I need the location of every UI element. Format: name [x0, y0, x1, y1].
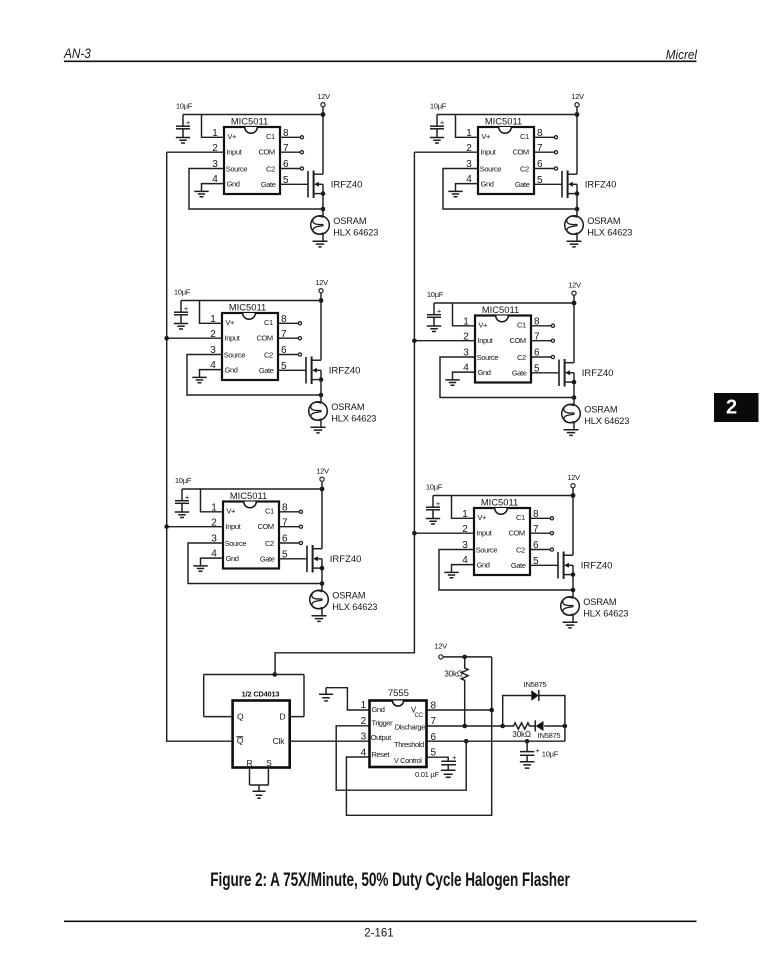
svg-text:R: R	[247, 758, 253, 768]
svg-text:7555: 7555	[388, 688, 409, 699]
svg-text:2-161: 2-161	[364, 927, 393, 939]
svg-text:Reset: Reset	[372, 750, 391, 759]
svg-text:30kΩ: 30kΩ	[512, 730, 531, 739]
svg-text:6: 6	[431, 732, 437, 743]
svg-text:Clk: Clk	[273, 736, 286, 746]
svg-text:AN-3: AN-3	[63, 47, 91, 62]
svg-text:CC: CC	[415, 713, 424, 719]
svg-text:V Control: V Control	[394, 756, 422, 765]
svg-text:12V: 12V	[434, 642, 448, 651]
svg-text:0.01 µF: 0.01 µF	[415, 770, 439, 779]
svg-text:Q: Q	[237, 712, 244, 722]
svg-text:Micrel: Micrel	[666, 47, 698, 62]
svg-text:Figure 2: A 75X/Minute, 50% Du: Figure 2: A 75X/Minute, 50% Duty Cycle H…	[210, 870, 570, 891]
svg-text:+: +	[535, 746, 540, 755]
svg-text:S: S	[266, 758, 272, 768]
svg-text:2: 2	[361, 716, 367, 727]
svg-text:8: 8	[431, 701, 437, 712]
svg-text:1/2 CD4013: 1/2 CD4013	[242, 690, 280, 699]
svg-text:Gnd: Gnd	[372, 705, 385, 714]
svg-text:1: 1	[361, 700, 367, 711]
svg-text:Trigger: Trigger	[372, 719, 394, 728]
svg-text:10µF: 10µF	[542, 749, 559, 758]
svg-text:3: 3	[361, 732, 367, 743]
svg-text:30kΩ: 30kΩ	[444, 670, 463, 679]
svg-text:7: 7	[431, 716, 437, 727]
svg-text:5: 5	[431, 748, 437, 759]
svg-text:Threshold: Threshold	[394, 740, 424, 749]
svg-text:4: 4	[361, 747, 367, 758]
svg-text:+: +	[452, 753, 457, 762]
svg-text:Output: Output	[371, 733, 392, 742]
svg-text:IN5875: IN5875	[524, 680, 547, 689]
svg-text:D: D	[280, 712, 286, 722]
svg-text:Discharge: Discharge	[395, 722, 425, 731]
svg-text:2: 2	[726, 397, 737, 419]
svg-text:IN5875: IN5875	[538, 731, 561, 740]
